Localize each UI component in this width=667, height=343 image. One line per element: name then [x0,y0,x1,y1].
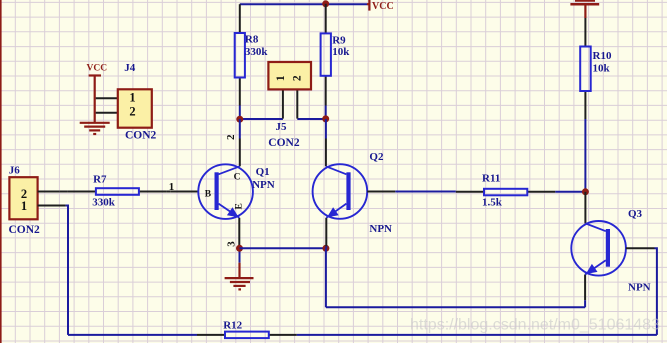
svg-text:3: 3 [226,241,238,247]
junction R10/R11/Q3 [582,188,589,195]
wire junction R8 to J5 pin1 [240,118,283,120]
pin Q3 collector [584,192,586,224]
junction R8 column [236,116,243,123]
svg-text:NPN: NPN [252,179,275,191]
svg-text:J5: J5 [276,121,288,133]
power VCC (top middle) [367,0,369,11]
svg-text:https://blog.csdn.net/m0_51061: https://blog.csdn.net/m0_51061483 [410,317,660,334]
pin Q1.1 base [170,191,198,193]
svg-text:330k: 330k [92,197,116,209]
pin R11.1 [456,191,484,193]
wire R8 to junction [239,106,241,121]
power VCC (J4) [89,76,101,123]
svg-text:R7: R7 [93,173,107,185]
pin Q2 base [367,191,395,193]
transistor Q3 [571,221,626,276]
pin J5.2 [296,89,298,118]
resistor R7 [96,188,139,195]
svg-text:330k: 330k [245,46,269,58]
svg-text:1: 1 [21,199,27,213]
svg-text:Q2: Q2 [369,151,384,163]
junction top rail / R9 [322,0,329,7]
resistor R9 [321,33,331,75]
wire emitter rail Q1-Q2 [240,247,326,249]
svg-text:R11: R11 [482,172,500,184]
svg-text:CON2: CON2 [125,130,157,142]
wire junction to Q2 collector [325,119,327,139]
svg-text:10k: 10k [593,63,611,75]
wire Q3 base to right rail [655,248,657,335]
connector J4 [118,89,152,127]
wire R7 to Q1 base [167,191,170,193]
wire bottom rail left [68,334,197,336]
svg-text:NPN: NPN [369,223,392,235]
wire R11 to junction [555,191,585,193]
resistor R12 [225,332,269,339]
wire Q2 emitter to junction [325,246,327,248]
pin R12.1 [197,334,225,336]
svg-text:C: C [234,173,241,183]
wire Q1 emitter to ground [239,246,241,262]
svg-text:VCC: VCC [372,1,394,12]
pin J6.2 [38,191,60,193]
pin Q1.2 collector [239,139,241,167]
svg-text:J4: J4 [124,62,136,74]
ground (Q1 emitter) [225,263,254,290]
junction Q2 emitter [322,245,329,252]
resistor R8 [235,33,245,78]
pin R10.1 [584,18,586,47]
pin J5.1 [282,89,284,118]
pin J4.1 [96,97,118,99]
svg-text:R8: R8 [245,33,259,45]
pin R12.2 [269,334,297,336]
pin R9.1 [325,4,327,34]
svg-text:R9: R9 [332,34,346,46]
wire bottom rail right [297,334,657,336]
svg-text:NPN: NPN [628,282,651,294]
transistor Q2 [313,164,368,219]
svg-text:R12: R12 [223,319,242,331]
power VCC (top right) [570,1,599,18]
ground (J4) [80,123,110,134]
wire J6 pin1 down to bottom rail [66,206,68,335]
pin R8.2 [239,78,241,106]
junction R9 column [322,115,329,122]
wire VCC rail top [240,3,367,5]
pin J4.2 [96,112,118,114]
pin R11.2 [527,191,555,193]
wire R9 to junction [325,106,327,120]
svg-text:CON2: CON2 [9,224,41,236]
connector J6 [9,177,37,219]
wire J5 pin2 to junction R9 [297,118,325,120]
svg-text:R10: R10 [593,50,612,62]
svg-text:CON2: CON2 [268,137,300,149]
pin R8.1 and wire stub [239,4,241,33]
svg-text:J6: J6 [9,165,21,177]
svg-text:Q1: Q1 [256,166,270,178]
pin R10.2 [584,91,586,119]
pin Q2 emitter [325,218,327,247]
pin Q3 base [626,247,655,249]
wire R10 to junction [584,119,586,192]
svg-text:10k: 10k [332,46,350,58]
svg-text:VCC: VCC [87,63,108,73]
svg-text:1: 1 [129,91,135,105]
pin Q2 collector [325,139,327,167]
pin Q1.3 emitter [238,218,240,247]
svg-text:2: 2 [129,104,135,118]
sheet border (left edge) [0,0,2,343]
resistor R10 [580,47,591,92]
resistor R11 [484,189,527,196]
pin Q3 emitter [584,275,586,301]
svg-text:B: B [205,189,212,199]
transistor Q1 [198,164,253,219]
svg-text:1.5k: 1.5k [482,197,503,209]
svg-text:2: 2 [292,75,304,81]
wire emitter return rail [326,306,585,308]
junction Q1 emitter [236,245,243,252]
wire Q2 emitter junction down [325,248,327,307]
wire Q3 emitter to rail [584,300,586,307]
pin R7.1 [68,191,96,193]
wire junction to Q1 collector [239,119,241,139]
pin R9.2 [325,76,327,106]
pin R7.2 [139,191,167,193]
pin J6.1 [38,205,66,207]
svg-text:1: 1 [275,75,287,81]
svg-text:E: E [234,203,244,209]
svg-text:2: 2 [225,134,237,140]
wire Q2 base to R11 [395,191,456,193]
connector J5 [268,62,311,89]
wire J6 pin2 to R7 [60,191,68,193]
svg-text:Q3: Q3 [628,208,643,220]
